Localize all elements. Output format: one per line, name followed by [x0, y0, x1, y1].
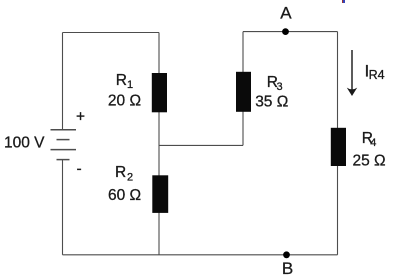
- svg-text:25 Ω: 25 Ω: [353, 153, 386, 170]
- node A junction dot: [282, 28, 289, 35]
- svg-text:B: B: [282, 259, 293, 278]
- svg-text:A: A: [280, 3, 292, 22]
- svg-text:-: -: [77, 161, 82, 178]
- svg-text:60 Ω: 60 Ω: [108, 187, 141, 204]
- wire top-right horizontal (node A): [243, 31, 338, 33]
- svg-text:3: 3: [277, 81, 283, 93]
- wire bottom horizontal: [63, 254, 338, 256]
- wire R2 bottom lead: [158, 212, 160, 255]
- wire middle horizontal (junction to R3): [159, 144, 243, 146]
- battery V1 100 V: [51, 130, 77, 160]
- wire R3 bottom lead: [242, 111, 244, 145]
- wire R1-R2 junction vertical: [158, 112, 160, 177]
- wire left vertical upper (battery + terminal lead): [62, 33, 64, 130]
- svg-text:R: R: [115, 164, 126, 181]
- resistor R3: [236, 72, 251, 112]
- svg-text:4: 4: [370, 137, 376, 149]
- wire R4 top lead: [337, 32, 339, 129]
- wire left vertical lower (battery - terminal lead): [62, 160, 64, 255]
- svg-text:R4: R4: [369, 68, 385, 82]
- wire R3 top lead: [242, 32, 244, 73]
- resistor R4: [331, 128, 346, 166]
- svg-text:20 Ω: 20 Ω: [108, 93, 141, 110]
- wire R4 bottom lead: [337, 166, 339, 255]
- wire R1 top lead: [158, 33, 160, 75]
- wire top-left horizontal: [63, 32, 160, 34]
- svg-text:100 V: 100 V: [4, 135, 45, 152]
- svg-text:R: R: [116, 72, 127, 89]
- resistor R1: [152, 73, 167, 112]
- resistor R2: [152, 175, 168, 213]
- svg-text:+: +: [76, 109, 85, 126]
- svg-text:35 Ω: 35 Ω: [255, 94, 288, 111]
- node B junction dot: [283, 251, 290, 258]
- current arrow IR4: [347, 50, 357, 96]
- cursor artifact top right: [342, 0, 344, 3]
- svg-text:2: 2: [127, 172, 133, 184]
- svg-text:1: 1: [127, 79, 133, 91]
